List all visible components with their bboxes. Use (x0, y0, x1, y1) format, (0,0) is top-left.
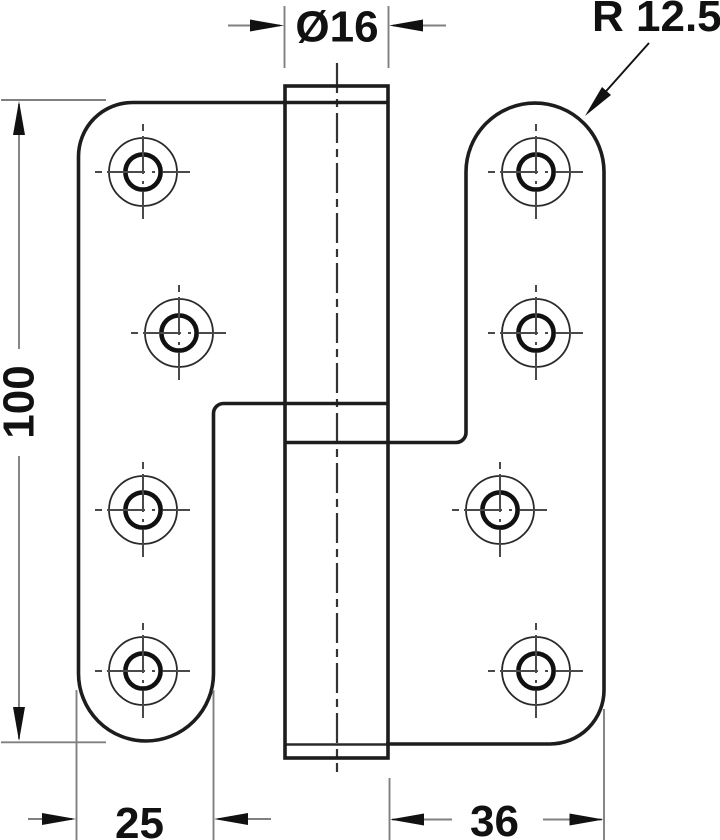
dimension 36 arrow right (543, 814, 604, 826)
screw hole R3 (452, 462, 547, 557)
dimension 25 arrow left (28, 813, 76, 825)
pin barrel (285, 86, 388, 758)
screw hole R4 (488, 623, 583, 718)
dimension 36 arrow left (390, 814, 452, 826)
dimension 100 extension lines (1, 100, 106, 742)
screw hole L3 (95, 462, 190, 557)
right leaf outline (285, 103, 604, 744)
screw hole L2 (131, 285, 226, 380)
dimension 100 arrow up (13, 101, 25, 135)
dimension 25 arrow right (214, 813, 271, 825)
svg-text:36: 36 (470, 797, 519, 840)
dimension Ø16 extension lines (285, 6, 389, 68)
dimension 36 extension lines (390, 709, 605, 840)
svg-text:R 12.5: R 12.5 (592, 0, 720, 41)
dimension Ø16 arrow right (389, 20, 446, 32)
screw hole R1 (488, 124, 583, 219)
svg-text:25: 25 (115, 799, 164, 840)
dimension 25 extension lines (77, 690, 214, 840)
centerline pin axis (336, 63, 338, 772)
dimension Ø16 arrow left (228, 20, 284, 32)
right leaf bottom edge seen across barrel (285, 743, 388, 745)
dimension 100 line (18, 104, 20, 739)
radius leader arrow (585, 43, 649, 116)
screw hole R2 (488, 285, 583, 380)
left leaf outline (79, 103, 389, 742)
screw hole L4 (95, 623, 190, 718)
svg-text:Ø16: Ø16 (295, 3, 378, 52)
dimension 100 arrow down (13, 707, 25, 741)
screw hole L1 (95, 124, 190, 219)
svg-text:100: 100 (0, 365, 44, 438)
